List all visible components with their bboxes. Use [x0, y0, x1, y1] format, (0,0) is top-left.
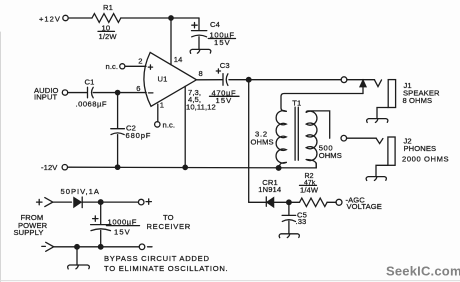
- svg-text:14: 14: [174, 55, 183, 64]
- transformer T1 secondary winding: [306, 111, 317, 160]
- svg-text:-12V: -12V: [41, 163, 58, 172]
- ground below C4: [190, 49, 211, 53]
- svg-text:SeekIC.com: SeekIC.com: [386, 264, 460, 279]
- resistor R1 fraction bar: [98, 30, 115, 32]
- jack J1 plug body: [388, 80, 395, 108]
- wire +12V to R1: [68, 17, 92, 19]
- capacitor C4 fraction bar: [208, 38, 235, 40]
- svg-text:.33: .33: [296, 217, 307, 226]
- svg-text:SUPPLY: SUPPLY: [14, 228, 44, 237]
- capacitor 1000uF: [91, 225, 111, 231]
- op-amp minus input mark: [149, 92, 153, 94]
- node AUDIO INPUT terminal: [62, 90, 67, 95]
- svg-text:10,11,12: 10,11,12: [186, 103, 216, 112]
- capacitor C5: [282, 215, 296, 221]
- jack J2 tip spring: [376, 139, 383, 144]
- op-amp plus input mark: [148, 65, 152, 69]
- svg-text:n.c.: n.c.: [106, 62, 119, 71]
- wire pin 14: [170, 20, 172, 65]
- svg-text:8: 8: [199, 69, 203, 78]
- power supply minus label: [42, 245, 46, 247]
- scan edge shadows: [0, 32, 2, 282]
- J1 tip switch arrow: [362, 87, 364, 94]
- svg-text:INPUT: INPUT: [34, 93, 58, 102]
- svg-text:VOLTAGE: VOLTAGE: [347, 202, 382, 211]
- power supply plus input arrow: [45, 198, 53, 207]
- jack J1 tip spring: [375, 80, 382, 87]
- capacitor C3: [223, 74, 228, 86]
- svg-text:15V: 15V: [216, 96, 233, 105]
- svg-text:n.c.: n.c.: [163, 120, 176, 129]
- wire 1000uF upper: [100, 204, 102, 224]
- wire to chassis ground: [76, 249, 78, 265]
- node -12V terminal: [62, 165, 67, 170]
- wire R2 to AGC terminal: [327, 201, 336, 203]
- capacitor C2: [111, 129, 125, 135]
- junction C2 tap: [115, 90, 119, 94]
- svg-text:C3: C3: [220, 61, 230, 70]
- wire C3 node down to CR1: [248, 82, 250, 202]
- capacitor C4 plus sign: [192, 23, 197, 28]
- wire output pin 8 to C3: [197, 79, 223, 81]
- wire minus rail: [54, 246, 140, 248]
- ground below supply rail: [68, 265, 90, 269]
- svg-text:U1: U1: [158, 74, 168, 83]
- svg-text:2000 OHMS: 2000 OHMS: [402, 155, 449, 164]
- wire C2 lower: [117, 135, 119, 168]
- svg-text:1/4W: 1/4W: [300, 185, 319, 194]
- svg-text:R1: R1: [103, 3, 113, 12]
- node output connector circle: [341, 77, 347, 83]
- node +12V terminal: [63, 15, 68, 20]
- svg-text:8 OHMS: 8 OHMS: [403, 96, 433, 105]
- wire C2 upper: [117, 95, 119, 129]
- svg-text:T1: T1: [292, 98, 301, 107]
- svg-text:TO ELIMINATE OSCILLATION.: TO ELIMINATE OSCILLATION.: [104, 264, 228, 273]
- ground below J2: [366, 177, 386, 181]
- pin 1 n.c. terminal: [155, 122, 160, 127]
- svg-text:TO: TO: [163, 213, 174, 222]
- transformer T1 secondary bottom lead: [306, 160, 316, 168]
- svg-text:OHMS: OHMS: [251, 137, 274, 146]
- transformer T1 primary bottom lead: [279, 162, 287, 167]
- svg-text:2: 2: [138, 56, 142, 65]
- wire input to C1: [68, 92, 87, 94]
- svg-text:15V: 15V: [214, 38, 231, 47]
- power supply plus label: [37, 199, 43, 204]
- jack J2 plug body: [388, 137, 395, 165]
- junction 1000uF on minus rail: [98, 245, 103, 250]
- node -AGC terminal: [336, 199, 342, 205]
- svg-text:6: 6: [136, 84, 140, 93]
- rectifier diode: [74, 198, 81, 207]
- wire arrow to diode: [53, 201, 72, 203]
- node receiver plus terminal: [138, 199, 144, 205]
- capacitor 1000uF fraction bar: [107, 225, 140, 227]
- svg-text:PHONES: PHONES: [404, 144, 437, 153]
- junction C5 tap: [287, 200, 292, 205]
- wire connector to J2 tip: [347, 137, 377, 139]
- wire n.c. to pin 2: [125, 65, 146, 67]
- receiver minus sign: [148, 246, 153, 248]
- svg-text:C1: C1: [85, 77, 95, 86]
- junction pin14 rail: [169, 16, 173, 20]
- svg-text:+12V: +12V: [39, 14, 61, 23]
- capacitor C1: [88, 87, 94, 98]
- wire C4 drop: [198, 18, 200, 30]
- svg-text:1: 1: [160, 100, 164, 109]
- wire connector to J1 tip: [347, 79, 375, 81]
- wire 1000uF lower: [100, 230, 102, 246]
- svg-text:680pF: 680pF: [126, 131, 152, 140]
- wire C1 to pin 6: [93, 92, 146, 94]
- wire R1 to C4 corner: [121, 17, 199, 19]
- power supply minus input arrow: [46, 242, 54, 251]
- wire pin 1 stub: [157, 104, 159, 122]
- jack J2 sleeve to ground: [376, 165, 388, 176]
- svg-text:C4: C4: [210, 20, 220, 29]
- wire -12V rail: [68, 163, 317, 168]
- jack J1 sleeve to ground: [377, 108, 388, 118]
- resistor R1: [92, 14, 121, 23]
- node receiver minus terminal: [139, 244, 145, 250]
- wire CR1 anode: [249, 201, 266, 203]
- transformer T1 primary top lead: [281, 94, 363, 112]
- node phones connector circle: [341, 135, 347, 141]
- diode CR1: [267, 198, 274, 207]
- svg-text:15V: 15V: [114, 227, 131, 236]
- wire op-amp ground pins: [184, 86, 186, 167]
- ground below J1: [367, 119, 388, 123]
- capacitor 1000uF plus sign: [93, 216, 98, 221]
- junction transformer primary on rail: [276, 166, 281, 171]
- svg-text:OHMS: OHMS: [319, 151, 342, 160]
- capacitor C3 fraction bar: [210, 95, 240, 97]
- resistor R2 fraction bar: [300, 184, 317, 186]
- transformer T1 secondary top lead: [306, 111, 330, 138]
- ground below C5: [279, 234, 299, 238]
- op-amp U1: [144, 52, 197, 106]
- svg-text:BYPASS CIRCUIT ADDED: BYPASS CIRCUIT ADDED: [104, 254, 210, 263]
- wire C5 upper: [288, 205, 290, 215]
- svg-text:.0068µF: .0068µF: [76, 99, 108, 108]
- junction C2 on rail: [115, 165, 119, 169]
- junction op-amp pins on rail: [183, 165, 187, 169]
- junction ground tap: [75, 245, 80, 250]
- capacitor C4: [192, 31, 207, 37]
- transformer T1 core: [295, 107, 298, 160]
- svg-text:50PIV,1A: 50PIV,1A: [61, 187, 100, 196]
- wire diode to receiver terminal: [82, 201, 138, 203]
- svg-text:1/2W: 1/2W: [99, 32, 118, 41]
- transformer T1 primary winding: [276, 111, 286, 164]
- wire CR1 to junction: [274, 201, 300, 203]
- svg-text:RECEIVER: RECEIVER: [147, 222, 191, 231]
- resistor R2: [300, 198, 328, 206]
- wire C3 to J1: [229, 79, 341, 81]
- pin 2 n.c. terminal: [120, 64, 125, 69]
- svg-text:1N914: 1N914: [258, 185, 281, 194]
- junction C3 output node: [246, 77, 251, 82]
- junction 1000uF tap: [98, 200, 103, 205]
- wire C5 lower: [288, 221, 290, 233]
- receiver plus sign: [146, 199, 151, 204]
- wire C4 to ground: [198, 37, 200, 50]
- capacitor C3 plus sign: [216, 69, 220, 73]
